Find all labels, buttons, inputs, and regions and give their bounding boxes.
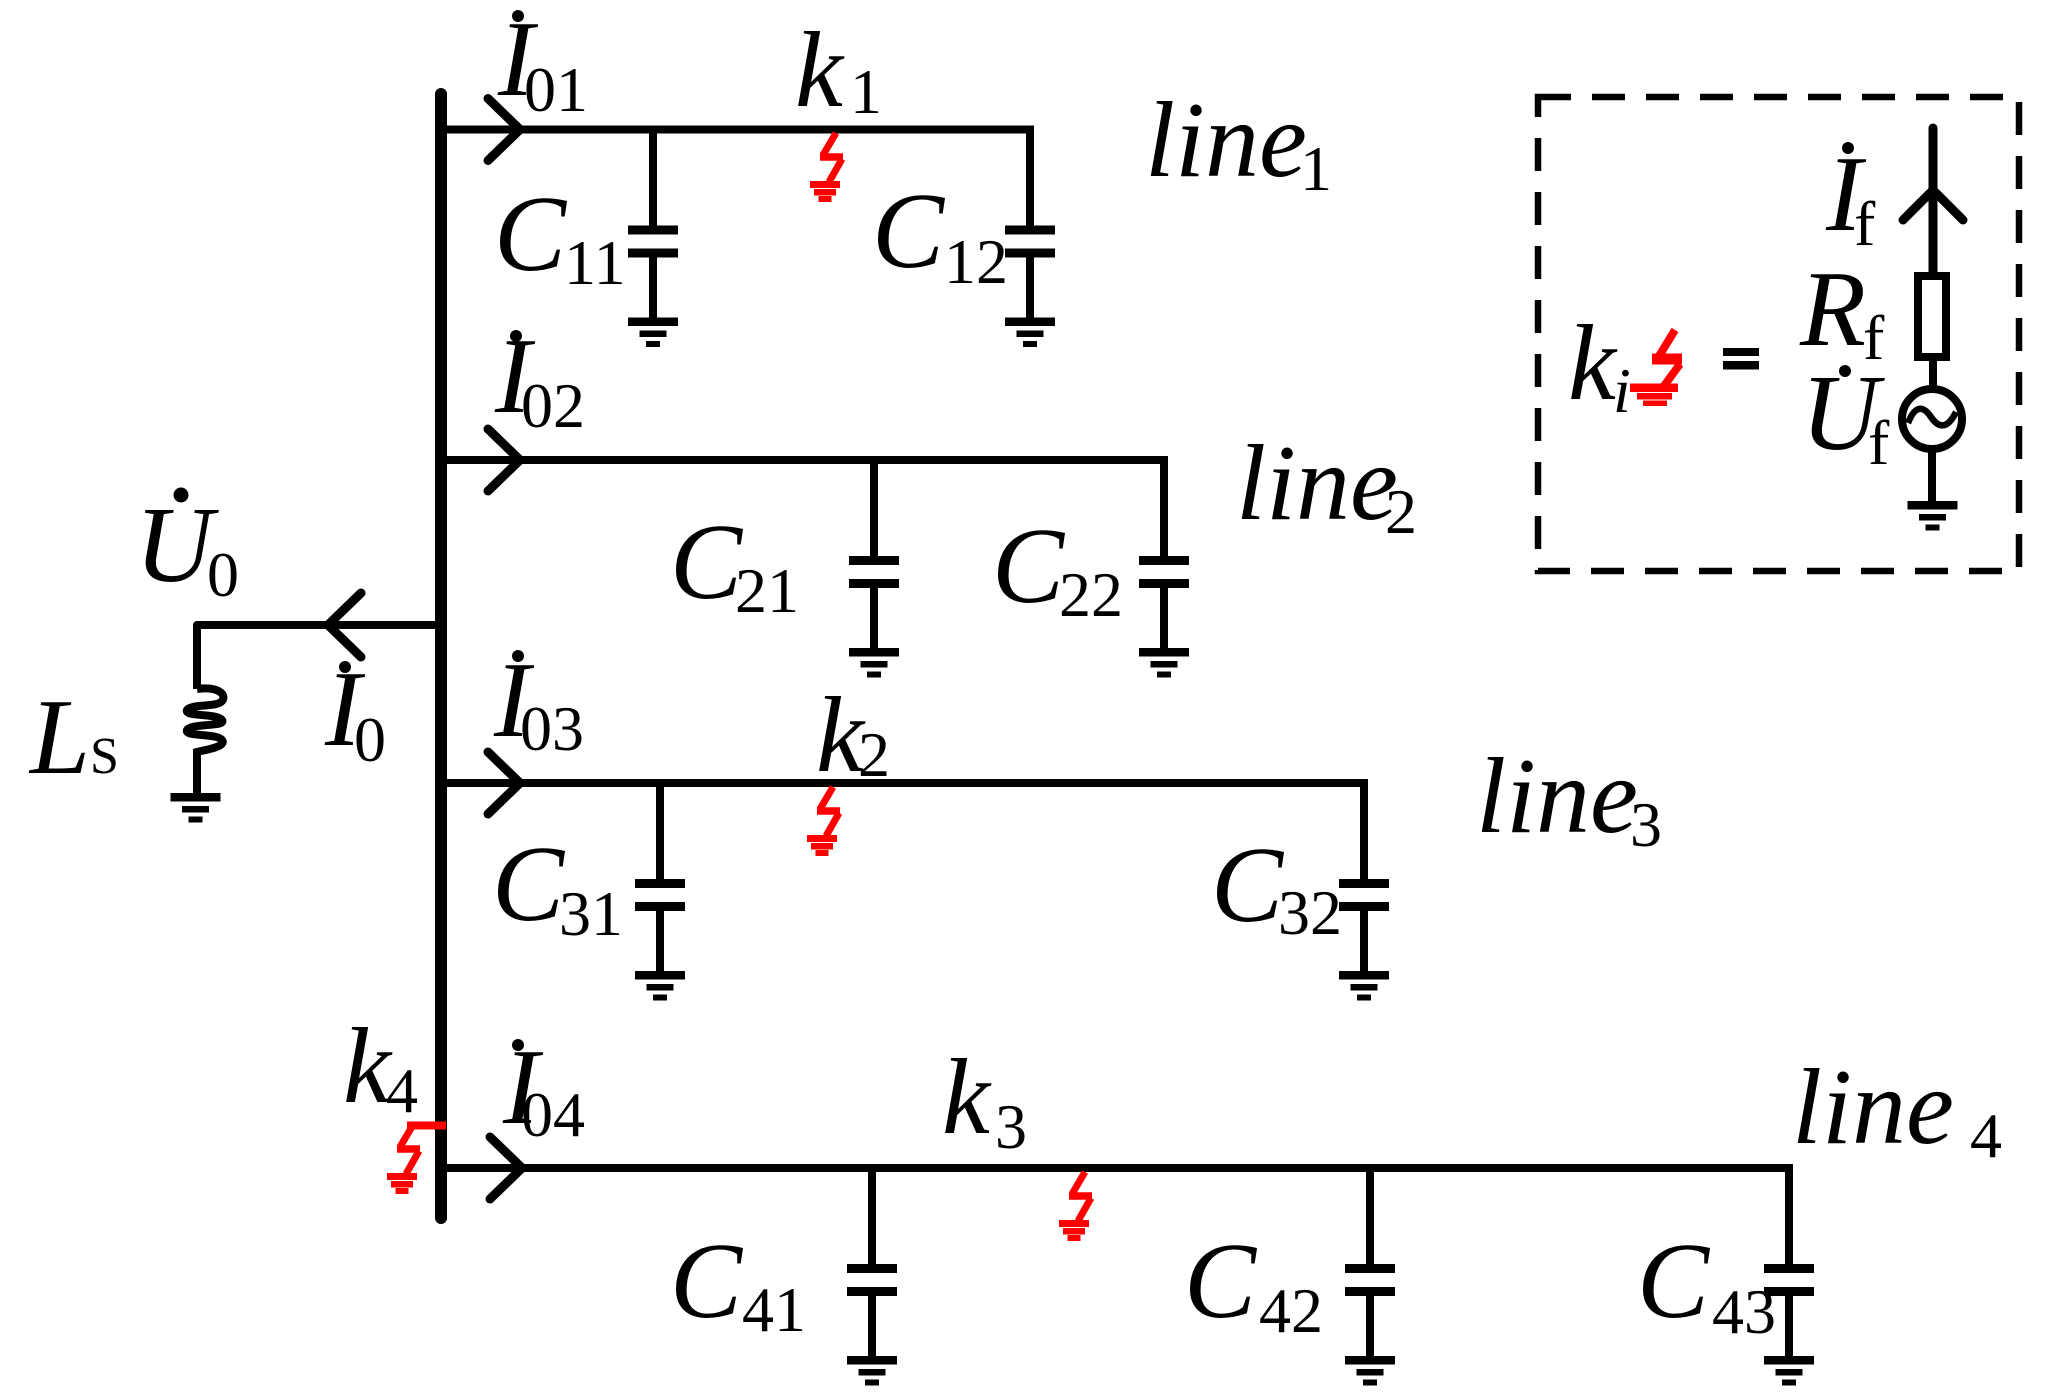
svg-text:C: C [670,1222,744,1341]
svg-text:0: 0 [354,704,386,775]
label Uf [1801,354,1890,478]
svg-text:41: 41 [742,1274,806,1345]
svg-text:L: L [28,678,90,797]
svg-text:C: C [1211,826,1285,945]
svg-text:R: R [1799,250,1866,369]
svg-text:i: i [1613,355,1631,426]
fault k1 bolt [810,133,843,202]
fault ki bolt [1630,330,1682,406]
label I0 [324,650,386,775]
svg-text:3: 3 [1630,789,1662,860]
label U0 [135,486,239,610]
arrow I01 [488,99,520,161]
svg-text:42: 42 [1259,1275,1323,1346]
wire U0 branch [197,625,441,689]
ground Uf [1908,501,1958,531]
wire line3 [441,779,1368,787]
svg-text:2: 2 [858,719,890,790]
svg-text:4: 4 [386,1055,418,1126]
capacitor C21 [849,460,899,650]
svg-text:11: 11 [564,227,626,298]
fault k4 bolt [387,1122,446,1195]
svg-text:C: C [1184,1222,1258,1341]
svg-text:1: 1 [1300,133,1332,204]
svg-text:02: 02 [521,370,585,441]
label C11 [494,175,626,298]
svg-text:C: C [992,507,1066,626]
svg-text:2: 2 [1385,476,1417,547]
arrow I04 [490,1137,522,1199]
label I01 [497,0,588,125]
svg-text:4: 4 [1970,1100,2002,1171]
label I03 [493,641,584,764]
label k4 [343,1007,418,1126]
label I04 [502,1028,585,1150]
ground C11 [628,318,678,348]
svg-text:C: C [494,175,568,294]
label C32 [1211,826,1342,948]
wire Rf to source [1929,357,1937,390]
svg-text:32: 32 [1278,877,1342,948]
ground C43 [1764,1356,1814,1386]
label k2 [816,676,890,795]
svg-text:22: 22 [1059,559,1123,630]
resistor Rf [1918,276,1946,357]
svg-text:12: 12 [944,226,1008,297]
label line4 [1792,1048,2002,1171]
capacitor C42 [1345,1168,1395,1358]
wire source to ground [1928,449,1936,503]
label C31 [492,825,623,949]
svg-text:43: 43 [1712,1276,1776,1347]
bus bar [435,94,447,1218]
wire line2 [441,456,1168,464]
svg-text:3: 3 [995,1091,1027,1162]
label k1 [795,11,882,130]
label line2 [1236,424,1417,547]
wire line4 [441,1164,1793,1172]
svg-text:f: f [1868,407,1890,478]
label line1 [1145,81,1332,204]
inductor LS [187,688,224,793]
svg-text:line: line [1145,81,1307,200]
label ki [1568,304,1631,426]
arrow I03 [488,752,520,814]
label Rf [1799,250,1885,373]
capacitor C43 [1764,1168,1814,1358]
svg-text:C: C [492,825,566,944]
ground C42 [1345,1356,1395,1386]
svg-text:line: line [1476,737,1638,856]
svg-text:03: 03 [520,693,584,764]
equals sign [1723,348,1759,370]
svg-text:C: C [1637,1222,1711,1341]
svg-text:01: 01 [524,54,588,125]
label I02 [494,317,585,441]
fault k2 bolt [807,787,840,856]
svg-text:k: k [795,11,845,130]
ground C41 [847,1356,897,1386]
arrow I02 [488,429,520,491]
svg-text:0: 0 [207,539,239,610]
fault k3 bolt [1059,1172,1092,1241]
ground C21 [849,648,899,678]
svg-text:S: S [90,728,119,785]
capacitor C22 [1139,460,1189,650]
capacitor C41 [847,1168,897,1358]
capacitor C11 [628,130,678,320]
ground LS [171,793,221,823]
ground C32 [1339,971,1389,1001]
svg-text:line: line [1792,1048,1954,1167]
svg-text:f: f [1854,188,1876,259]
label line3 [1476,737,1662,860]
label C21 [670,503,799,626]
ground C31 [635,971,685,1001]
ground C12 [1005,318,1055,348]
svg-text:31: 31 [559,878,623,949]
svg-text:21: 21 [735,555,799,626]
svg-text:k: k [1568,304,1618,423]
label C42 [1184,1222,1323,1346]
wire line1 [441,126,1034,134]
svg-text:C: C [670,503,744,622]
ground C22 [1139,648,1189,678]
svg-text:line: line [1236,424,1398,543]
svg-text:1: 1 [850,56,882,127]
svg-text:C: C [872,172,946,291]
wire If stem [1929,128,1938,276]
capacitor C12 [1005,130,1055,320]
inset dashed box [1538,97,2019,571]
svg-text:04: 04 [521,1079,585,1150]
ac source Uf [1902,389,1962,449]
arrow If (up) [1903,190,1963,220]
label C12 [872,172,1008,297]
svg-text:k: k [942,1038,992,1157]
arrow I0 (left) [328,593,361,657]
capacitor C32 [1339,783,1389,973]
label If [1825,135,1876,259]
label LS [28,678,119,797]
capacitor C31 [635,783,685,973]
label C43 [1637,1222,1776,1347]
label C41 [670,1222,806,1345]
label C22 [992,507,1123,630]
label k3 [942,1038,1027,1162]
